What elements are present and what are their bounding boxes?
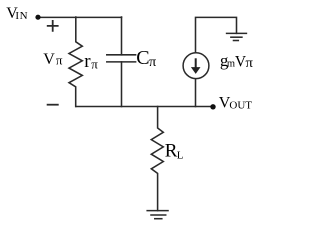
svg-text:π: π xyxy=(56,53,63,67)
svg-text:m: m xyxy=(227,58,235,69)
svg-text:π: π xyxy=(91,57,98,72)
svg-text:r: r xyxy=(84,51,91,72)
svg-text:C: C xyxy=(136,47,149,69)
svg-text:V: V xyxy=(43,51,55,68)
svg-text:IN: IN xyxy=(15,10,27,22)
svg-text:OUT: OUT xyxy=(229,100,252,112)
svg-text:π: π xyxy=(149,55,156,70)
svg-text:L: L xyxy=(177,149,184,161)
svg-text:π: π xyxy=(246,56,253,71)
